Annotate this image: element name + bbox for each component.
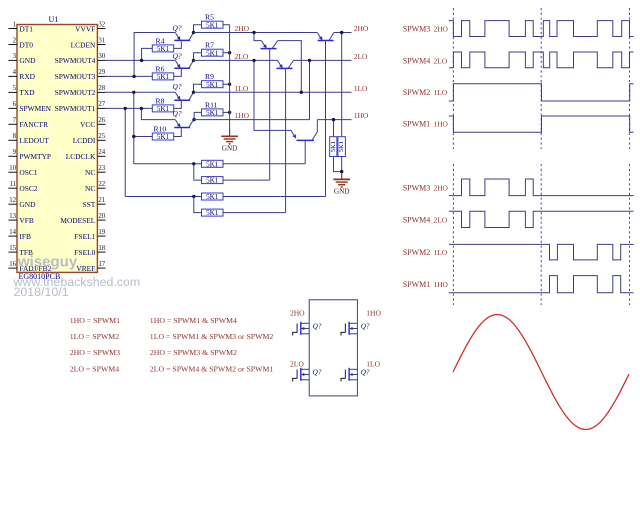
svg-text:Q?: Q?	[313, 322, 322, 330]
svg-text:Q?: Q?	[361, 368, 370, 376]
svg-text:5K1: 5K1	[206, 160, 219, 168]
transistor Q? (T_A on 2HO rail)	[254, 33, 278, 49]
MOSFET bottom-left designator Q?	[313, 368, 322, 376]
junction R11/ground rail	[228, 111, 231, 114]
svg-text:5K1: 5K1	[157, 45, 170, 53]
wire 2LO rail	[194, 59, 352, 61]
svg-text:FSEL1: FSEL1	[74, 232, 95, 241]
waveform SPWM1 (upper block)	[449, 116, 634, 132]
svg-text:SPWMOUT4: SPWMOUT4	[55, 56, 96, 65]
svg-text:2HO: 2HO	[235, 24, 250, 33]
svg-text:SPWM2: SPWM2	[403, 248, 431, 257]
net label 2HO (left)	[235, 24, 250, 33]
net label 2HO (right)	[354, 24, 369, 33]
waveform SPWM3 (upper block)	[449, 21, 634, 37]
wire R9 right to ground rail	[223, 83, 230, 85]
wire 1HO rail (right segment)	[317, 119, 351, 121]
svg-text:3: 3	[13, 53, 17, 60]
resistor 5K1 (vertical, from 1HO)	[330, 137, 337, 157]
wire row B left elbow	[194, 164, 202, 180]
svg-text:11: 11	[9, 181, 16, 188]
junction Q collector / R9 / rail	[192, 91, 195, 94]
wire SPWMOUT2 (pin28) to Q3 emitter / 1LO line	[106, 91, 176, 93]
svg-text:LEDOUT: LEDOUT	[19, 136, 49, 145]
junction T_A collector / 1LO	[300, 91, 303, 94]
timing grid dashed line t0 (upper block)	[452, 8, 454, 149]
svg-text:R6: R6	[156, 64, 165, 73]
svg-text:wiseguy: wiseguy	[17, 254, 78, 271]
wire R7 left elbow from collector junction	[194, 53, 202, 61]
timing grid dashed line t0 (lower block)	[452, 164, 454, 305]
wire branch pin28 down to R10 and lower resistor row A	[133, 92, 135, 164]
waveform label SPWM1 1HO (upper)	[403, 119, 449, 128]
svg-text:1HO: 1HO	[434, 280, 449, 289]
resistor row A 5K1	[202, 160, 224, 168]
wire 2HO to right vertical resistor	[341, 33, 343, 137]
ground symbol GND (pull resistor rail)	[221, 130, 238, 153]
wire 1HO to left vertical resistor	[333, 120, 335, 137]
svg-text:1LO: 1LO	[235, 84, 249, 93]
svg-text:9: 9	[13, 149, 17, 156]
junction T_A emitter tap on 2HO	[252, 31, 255, 34]
net label 1HO (right)	[354, 111, 369, 120]
resistor row D 5K1	[202, 209, 224, 217]
waveform label SPWM1 1HO (lower)	[403, 280, 449, 289]
svg-text:27: 27	[98, 101, 105, 108]
table text 2LO mapping (left column)	[70, 364, 120, 373]
svg-text:NC: NC	[85, 168, 95, 177]
svg-text:1HO = SPWM1: 1HO = SPWM1	[70, 316, 120, 325]
watermark wiseguy	[17, 254, 78, 271]
MOSFET Q? (bridge top-right, 1HO)	[341, 322, 357, 336]
junction 1HO/left vertical resistor	[332, 118, 335, 121]
resistor 5K1 (vertical, from 2HO)	[338, 137, 346, 157]
junction pin27/row C branch	[124, 107, 127, 110]
wire R11 right to ground rail	[223, 111, 230, 113]
svg-text:2LO: 2LO	[434, 215, 448, 224]
waveform SPWM4 (lower block)	[449, 211, 634, 227]
svg-text:RXD: RXD	[19, 72, 35, 81]
svg-text:17: 17	[98, 261, 105, 268]
table text 2HO mapping (left column)	[70, 348, 120, 357]
svg-text:SPWM3: SPWM3	[403, 183, 431, 192]
net label 1HO (left)	[235, 111, 250, 120]
svg-text:R8: R8	[156, 96, 165, 105]
ground symbol GND (below 5K1 pair)	[333, 173, 350, 196]
svg-text:4: 4	[13, 69, 17, 76]
table text 1HO mapping (right column)	[150, 316, 237, 325]
watermark www.thebackshed.com	[13, 275, 141, 289]
svg-text:2LO: 2LO	[235, 52, 249, 61]
svg-text:1LO: 1LO	[434, 88, 448, 97]
wire SPWMOUT4 (pin30) to Q2 emitter / 2LO line	[106, 59, 176, 61]
svg-text:5K1: 5K1	[157, 133, 170, 141]
watermark date 2018/10/1	[14, 285, 69, 299]
svg-text:1LO: 1LO	[434, 248, 448, 257]
svg-text:1LO: 1LO	[366, 359, 380, 368]
svg-text:FSEL0: FSEL0	[74, 248, 95, 257]
wire row A left (from pin28 branch)	[134, 163, 202, 165]
svg-text:LCDEN: LCDEN	[71, 40, 96, 49]
svg-text:5K1: 5K1	[338, 141, 345, 152]
resistor R6 5K1	[152, 64, 173, 81]
svg-text:Q?: Q?	[173, 51, 182, 60]
svg-text:1HO: 1HO	[366, 309, 381, 318]
wire vertical resistors to GND	[334, 157, 342, 173]
wire R5 left elbow from collector junction	[194, 25, 202, 33]
U1 pin 2 (DT0)	[8, 37, 33, 49]
net label 1LO (left)	[235, 84, 249, 93]
svg-text:5K1: 5K1	[206, 81, 219, 89]
svg-text:22: 22	[98, 181, 105, 188]
svg-text:2HO: 2HO	[354, 24, 369, 33]
svg-text:24: 24	[98, 149, 105, 156]
wire R4 left to pin30 line	[142, 48, 153, 60]
svg-text:26: 26	[98, 117, 105, 124]
svg-text:DT0: DT0	[19, 40, 33, 49]
svg-text:SPWM1: SPWM1	[403, 119, 431, 128]
U1 pin 12 (GND)	[8, 197, 36, 209]
svg-text:SPWMEN: SPWMEN	[19, 104, 51, 113]
table text 1LO mapping (left column)	[70, 332, 120, 341]
svg-text:2HO: 2HO	[290, 309, 305, 318]
svg-text:IFB: IFB	[19, 232, 31, 241]
junction Q collector / R5 / rail	[192, 31, 195, 34]
svg-text:5K1: 5K1	[157, 105, 170, 113]
svg-text:1HO: 1HO	[434, 119, 449, 128]
U1 pin 29 (SPWMOUT3)	[55, 69, 106, 81]
svg-text:R10: R10	[154, 124, 167, 133]
svg-text:OSC2: OSC2	[19, 184, 37, 193]
wire R7 right to ground rail	[223, 52, 230, 54]
U1 pin 24 (LCDCLK)	[66, 149, 106, 161]
svg-text:2018/10/1: 2018/10/1	[14, 285, 69, 299]
svg-text:2HO = SPWM3 & SPWM2: 2HO = SPWM3 & SPWM2	[150, 348, 237, 357]
svg-text:2LO = SPWM4: 2LO = SPWM4	[70, 364, 120, 373]
svg-text:31: 31	[98, 37, 105, 44]
svg-text:SPWM4: SPWM4	[403, 215, 431, 224]
resistor R10 5K1	[152, 124, 173, 141]
waveform SPWM4 (upper block)	[449, 52, 634, 68]
wire 2LO down to 1HO rail left end	[309, 60, 311, 119]
wire 1LO rail	[194, 91, 352, 93]
U1 pin 20 (MODESEL)	[60, 213, 105, 225]
table text 2LO mapping (right column)	[150, 364, 274, 373]
table text 1LO mapping (right column)	[150, 332, 274, 341]
waveform SPWM3 (lower block)	[449, 179, 634, 196]
junction link/2LO	[308, 59, 311, 62]
U1 pin 15 (TFB)	[8, 245, 33, 257]
svg-text:23: 23	[98, 165, 105, 172]
MOSFET bottom-right designator Q?	[361, 368, 370, 376]
resistor R4 5K1	[152, 36, 173, 53]
svg-text:2HO = SPWM3: 2HO = SPWM3	[70, 348, 120, 357]
svg-text:SPWM1: SPWM1	[403, 280, 431, 289]
U1 pin 28 (SPWMOUT2)	[55, 85, 106, 97]
svg-text:TXD: TXD	[19, 88, 35, 97]
transistor Q? (Q2, 2LO driver)	[173, 51, 194, 68]
svg-text:U1: U1	[49, 15, 59, 24]
svg-text:16: 16	[9, 261, 16, 268]
svg-text:MODESEL: MODESEL	[60, 216, 95, 225]
junction R10/pin28 branch	[132, 135, 135, 138]
resistor row C 5K1	[202, 193, 224, 201]
junction pin28/branch	[132, 91, 135, 94]
svg-text:30: 30	[98, 53, 105, 60]
wire 2HO rail	[194, 32, 352, 34]
wire branch pin27 down to lower resistor row C	[124, 108, 126, 196]
U1 pin 32 (VVVF)	[75, 21, 106, 33]
U1 pin 3 (GND)	[8, 53, 36, 65]
wire SPWMOUT3 (pin29) to R6	[106, 75, 153, 77]
wire row D left elbow	[194, 197, 202, 213]
U1 pin 17 (VREF)	[76, 261, 105, 273]
timing grid dashed line t1 (lower block)	[540, 164, 542, 305]
wire SPWMOUT1 (pin27) to R8	[106, 107, 153, 109]
resistor R11 5K1	[202, 100, 224, 117]
sine wave (output fundamental)	[453, 315, 629, 430]
U1 pin 19 (FSEL1)	[74, 229, 105, 241]
svg-text:2HO: 2HO	[434, 183, 449, 192]
svg-text:R4: R4	[156, 36, 165, 45]
svg-text:5K1: 5K1	[206, 21, 219, 29]
svg-text:GND: GND	[334, 187, 350, 195]
waveform label SPWM4 2LO (lower)	[403, 215, 448, 224]
resistor R5 5K1	[202, 13, 224, 30]
resistor R9 5K1	[202, 72, 224, 89]
MOSFET top-right designator Q?	[361, 322, 370, 330]
svg-text:1: 1	[13, 21, 16, 28]
svg-text:28: 28	[98, 85, 105, 92]
svg-text:1HO = SPWM1 & SPWM4: 1HO = SPWM1 & SPWM4	[150, 316, 237, 325]
U1 pin 7 (FANCTR)	[8, 117, 48, 129]
MOSFET Q? (bridge bottom-right, 1LO)	[341, 368, 357, 382]
MOSFET Q? (bridge top-left, 2HO)	[293, 322, 310, 336]
svg-text:VCC: VCC	[80, 120, 95, 129]
svg-text:VVVF: VVVF	[75, 24, 95, 33]
svg-text:1HO: 1HO	[235, 111, 250, 120]
timing grid dashed line t1 (upper block)	[540, 8, 542, 149]
U1 pin 1 (DT1)	[8, 21, 33, 33]
svg-text:29: 29	[98, 69, 105, 76]
U1 pin 11 (OSC2)	[8, 181, 37, 193]
U1 pin 21 (SST)	[83, 197, 106, 209]
svg-text:5K1: 5K1	[206, 193, 219, 201]
svg-text:SPWMOUT2: SPWMOUT2	[55, 88, 96, 97]
svg-text:1LO: 1LO	[354, 84, 368, 93]
U1 pin 27 (SPWMOUT1)	[55, 101, 106, 113]
U1 pin 30 (SPWMOUT4)	[55, 53, 106, 65]
table text 1HO mapping (left column)	[70, 316, 120, 325]
wire ground rail (R5 chain down to GND)	[229, 25, 231, 130]
svg-text:Q?: Q?	[313, 368, 322, 376]
junction R9/ground rail	[228, 83, 231, 86]
svg-text:5K1: 5K1	[206, 109, 219, 117]
MOSFET top-left designator Q?	[313, 322, 322, 330]
svg-text:5K1: 5K1	[206, 49, 219, 57]
wire 1HO rail (left segment)	[194, 119, 309, 121]
wire R9 left elbow from collector junction	[194, 84, 202, 92]
net label 1LO (bridge)	[366, 359, 380, 368]
table text 2HO mapping (right column)	[150, 348, 237, 357]
wire row B right to T_A base	[223, 179, 270, 181]
wire T_A collector to 1LO rail	[278, 41, 302, 93]
wire T_D base down to row C resistor	[325, 41, 327, 196]
waveform SPWM2 (lower block)	[449, 244, 634, 260]
svg-text:1HO: 1HO	[354, 111, 369, 120]
wire row D right to T_B base	[223, 212, 286, 214]
waveform SPWM2 (upper block)	[449, 84, 634, 101]
wire T_B base down to row D resistor	[285, 69, 287, 213]
U1 pin 10 (OSC1)	[8, 165, 37, 177]
IC U1 EG8010 body	[17, 25, 97, 273]
svg-text:LCDCLK: LCDCLK	[66, 152, 96, 161]
svg-text:12: 12	[9, 197, 16, 204]
U1 pin 18 (FSEL0)	[74, 245, 105, 257]
svg-text:2: 2	[13, 37, 17, 44]
svg-text:GND: GND	[19, 56, 36, 65]
net label 1HO (bridge)	[366, 309, 381, 318]
wire row A right to T_C base	[223, 163, 305, 165]
transistor Q? (T_C below 1HO rail)	[254, 60, 317, 140]
wire branch pin27 down to 1HO line (Q4 emitter feed)	[141, 108, 175, 119]
svg-text:1LO = SPWM1 & SPWM3 or SPWM2: 1LO = SPWM1 & SPWM3 or SPWM2	[150, 332, 274, 341]
junction pin27/1HO branch	[140, 107, 143, 110]
waveform label SPWM3 2HO (lower)	[403, 183, 449, 192]
transistor Q? (Q3, 1LO driver)	[173, 82, 194, 100]
svg-text:2HO: 2HO	[434, 25, 449, 34]
U1 pin 6 (SPWMEN)	[8, 101, 51, 113]
U1 pin 14 (IFB)	[8, 229, 31, 241]
svg-text:SPWM4: SPWM4	[403, 56, 431, 65]
svg-text:5K1: 5K1	[330, 141, 337, 152]
U1 pin 22 (NC)	[85, 181, 106, 193]
junction Q collector / R11 / rail	[192, 118, 195, 121]
svg-text:Q?: Q?	[173, 82, 182, 91]
svg-text:2LO: 2LO	[434, 56, 448, 65]
waveform label SPWM4 2LO (upper)	[403, 56, 448, 65]
svg-text:32: 32	[98, 21, 105, 28]
U1 pin 23 (NC)	[85, 165, 106, 177]
transistor Q? (T_B inline on 2LO rail)	[277, 60, 294, 68]
transistor Q? (Q1, 2HO driver)	[173, 24, 194, 41]
svg-text:5K1: 5K1	[206, 177, 219, 185]
U1 pin 5 (TXD)	[8, 85, 35, 97]
svg-text:2LO = SPWM4 & SPWM2 or SPWM1: 2LO = SPWM4 & SPWM2 or SPWM1	[150, 364, 274, 373]
junction 2HO/right vertical resistor	[340, 31, 343, 34]
wire branch pin29 up to 2HO line (Q1 emitter feed)	[134, 33, 175, 77]
timing grid dashed line t2 (lower block)	[629, 164, 631, 305]
wire T_A base down to row B resistor	[269, 49, 271, 180]
U1 pin 31 (LCDEN)	[71, 37, 106, 49]
svg-text:VREF: VREF	[76, 264, 95, 273]
net label 2LO (left)	[235, 52, 249, 61]
wire T_C base down to row A resistor	[304, 141, 306, 164]
waveform SPWM1 (lower block)	[449, 276, 634, 293]
svg-text:2LO: 2LO	[354, 52, 368, 61]
svg-text:NC: NC	[85, 184, 95, 193]
waveform label SPWM2 1LO (lower)	[403, 248, 448, 257]
svg-text:R11: R11	[205, 100, 218, 109]
wire R11 left elbow from collector junction	[194, 112, 201, 119]
svg-text:Q?: Q?	[173, 24, 182, 33]
waveform label SPWM3 2HO (upper)	[403, 25, 449, 34]
svg-text:R9: R9	[205, 72, 214, 81]
wire Q2 base to R6	[174, 69, 182, 76]
svg-text:Q?: Q?	[361, 322, 370, 330]
svg-text:6: 6	[13, 101, 17, 108]
wire Q4 base to R10	[174, 128, 182, 136]
svg-text:19: 19	[98, 229, 105, 236]
wire R5 right to ground rail	[223, 24, 230, 26]
wire row C right to T_D base	[223, 196, 326, 198]
junction resistor pair / GND lead	[340, 170, 343, 173]
junction R7/ground rail	[228, 51, 231, 54]
svg-text:20: 20	[98, 213, 105, 220]
U1 pin 25 (LCDDI)	[73, 133, 106, 145]
U1 part label EG8010PCB	[19, 272, 61, 281]
U1 pin 13 (VFB)	[8, 213, 33, 225]
svg-text:Q?: Q?	[173, 109, 182, 118]
svg-text:5: 5	[13, 85, 17, 92]
resistor row B 5K1	[202, 177, 224, 185]
svg-text:15: 15	[9, 245, 16, 252]
svg-text:LCDDI: LCDDI	[73, 136, 96, 145]
resistor R7 5K1	[202, 41, 224, 58]
svg-text:25: 25	[98, 133, 105, 140]
svg-text:7: 7	[13, 117, 17, 124]
svg-text:FANCTR: FANCTR	[19, 120, 48, 129]
svg-text:GND: GND	[222, 144, 238, 152]
svg-text:SST: SST	[83, 200, 96, 209]
waveform label SPWM2 1LO (upper)	[403, 88, 448, 97]
U1 pin 8 (LEDOUT)	[8, 133, 49, 145]
junction T_C emitter tap on 2LO	[252, 59, 255, 62]
svg-text:R5: R5	[205, 13, 214, 22]
U1 pin 4 (RXD)	[8, 69, 35, 81]
wire row C left (from pin27 branch)	[125, 196, 201, 198]
junction Q collector / R7 / rail	[192, 59, 195, 62]
junction row A fork	[192, 162, 195, 165]
U1 pin 16 (FADJ/FB2)	[8, 261, 51, 273]
H-bridge outline box	[309, 300, 357, 396]
net label 1LO (right)	[354, 84, 368, 93]
timing grid dashed line t2 (upper block)	[629, 8, 631, 149]
U1 pin 9 (PWMTYP)	[8, 149, 51, 161]
wire R10 left from pin28 branch	[134, 136, 153, 138]
svg-text:5K1: 5K1	[157, 73, 170, 81]
junction R4/pin30 line	[140, 59, 143, 62]
svg-text:18: 18	[98, 245, 105, 252]
svg-text:8: 8	[13, 133, 17, 140]
junction row C fork	[192, 195, 195, 198]
svg-text:10: 10	[9, 165, 16, 172]
net label 2LO (bridge)	[290, 359, 304, 368]
svg-text:VFB: VFB	[19, 216, 33, 225]
svg-text:14: 14	[9, 229, 16, 236]
transistor Q? (Q4, 1HO driver)	[173, 109, 194, 128]
resistor R8 5K1	[152, 96, 173, 113]
U1 designator label	[49, 15, 59, 24]
net label 2HO (bridge)	[290, 309, 305, 318]
MOSFET Q? (bridge bottom-left, 2LO)	[293, 368, 310, 382]
svg-text:2LO: 2LO	[290, 359, 304, 368]
svg-text:OSC1: OSC1	[19, 168, 37, 177]
svg-text:SPWM3: SPWM3	[403, 25, 431, 34]
svg-text:PWMTYP: PWMTYP	[19, 152, 51, 161]
svg-text:R7: R7	[205, 41, 214, 50]
svg-text:SPWMOUT3: SPWMOUT3	[55, 72, 96, 81]
